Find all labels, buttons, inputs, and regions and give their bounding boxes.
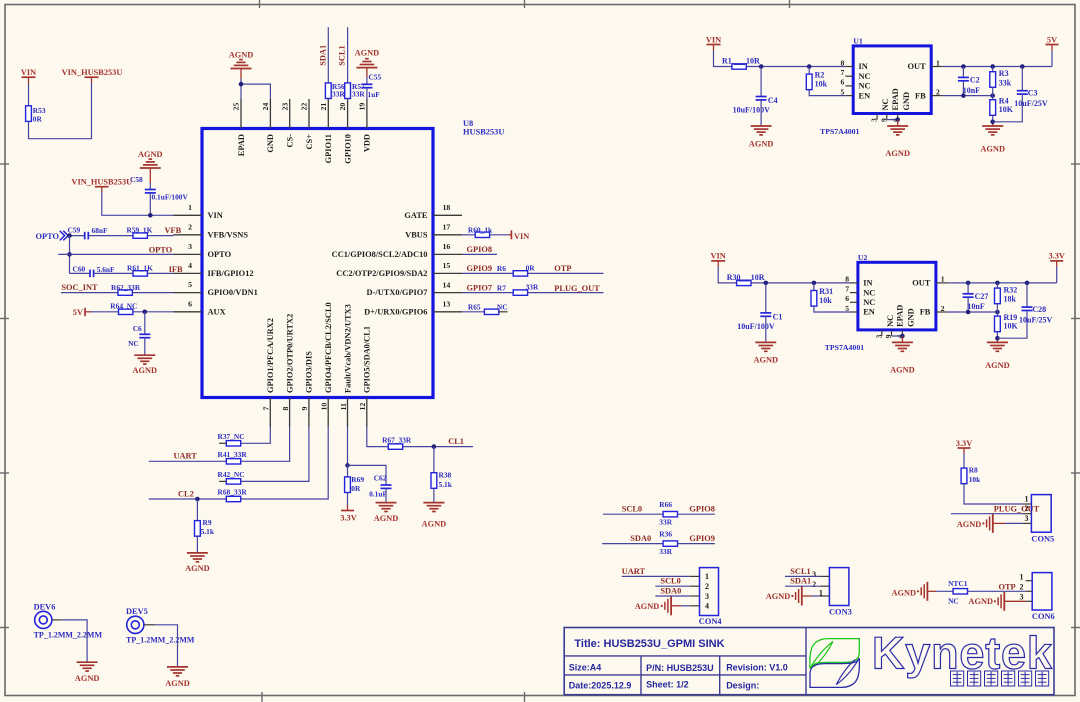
svg-text:R62_33R: R62_33R	[111, 283, 141, 292]
svg-text:SCL1: SCL1	[790, 567, 810, 576]
svg-text:33R: 33R	[352, 89, 365, 98]
svg-text:SDA0: SDA0	[630, 534, 651, 543]
svg-text:OUT: OUT	[912, 279, 931, 288]
logo chinese characters	[951, 671, 964, 686]
svg-text:0R: 0R	[526, 263, 536, 272]
ground AGND below C6	[134, 354, 155, 356]
U2 pin 5 EN stub	[850, 311, 858, 313]
svg-text:CON3: CON3	[829, 608, 852, 617]
wire to C4	[760, 67, 762, 97]
wire C62 to AGND	[385, 488, 387, 502]
svg-text:R65: R65	[468, 303, 481, 312]
svg-text:CL2: CL2	[178, 489, 194, 498]
U8 pin 20 GPIO10 stub	[347, 99, 349, 129]
U2 pin 2 FB stub	[936, 311, 948, 313]
svg-text:VFB/VSNS: VFB/VSNS	[208, 230, 249, 239]
svg-text:R6: R6	[497, 264, 506, 273]
svg-text:0.1uF: 0.1uF	[369, 489, 387, 498]
resistor R67	[388, 444, 402, 449]
svg-text:EPAD: EPAD	[237, 134, 246, 156]
resistor R8	[961, 468, 967, 484]
svg-text:GND: GND	[907, 308, 916, 327]
svg-text:AGND: AGND	[165, 679, 190, 688]
border zone tick right 1	[1071, 163, 1080, 165]
svg-text:VIN: VIN	[711, 252, 726, 261]
svg-text:R4: R4	[999, 97, 1009, 106]
svg-text:Date:2025.12.9: Date:2025.12.9	[569, 681, 632, 691]
U8 pin 6 AUX stub	[173, 311, 202, 313]
svg-text:0R: 0R	[33, 115, 43, 124]
svg-text:GPIO8: GPIO8	[689, 505, 715, 514]
svg-text:GPIO1/PFCA/URX2: GPIO1/PFCA/URX2	[266, 318, 275, 393]
wire R66 to GPIO8	[678, 513, 715, 515]
svg-text:D+/URX0/GPIO6: D+/URX0/GPIO6	[364, 307, 427, 316]
U1 pin 9 stub	[886, 114, 888, 120]
U1 pin 2 FB stub	[931, 95, 943, 97]
wire DEV5 to AGND	[144, 624, 155, 626]
junction OPTO/pin3	[67, 252, 72, 257]
resistor R37	[226, 441, 240, 446]
svg-text:GPIO9: GPIO9	[689, 534, 715, 543]
svg-text:R38: R38	[439, 471, 452, 480]
wire R53 to VIN_HUSB253U	[29, 83, 92, 139]
svg-text:10nF: 10nF	[963, 86, 980, 95]
wire R65 stub	[499, 311, 508, 313]
svg-text:1: 1	[936, 58, 940, 67]
junction EPAD node	[239, 82, 244, 87]
svg-text:C60: C60	[73, 265, 86, 274]
svg-text:5V: 5V	[1047, 35, 1057, 44]
svg-text:U1: U1	[853, 37, 863, 46]
wire GPIO8 from pin 16	[462, 253, 497, 255]
svg-text:C62: C62	[374, 473, 387, 482]
U8 pin 10 GPIO4/PFCB/CL2/SCL0 stub	[327, 398, 329, 428]
wire R57 to U8 pin 20	[347, 99, 349, 100]
CON5 pin 1 stub	[1022, 503, 1031, 505]
wire DEV6 to AGND	[52, 619, 63, 621]
svg-text:TP_1.2MM_2.2MM: TP_1.2MM_2.2MM	[126, 635, 195, 644]
wire R61 to U8 pin 4	[147, 272, 173, 274]
svg-text:2: 2	[705, 582, 709, 591]
CON4 pin 2 stub	[690, 585, 700, 587]
junction C28 tap	[1025, 281, 1030, 286]
svg-text:13: 13	[443, 300, 451, 309]
svg-text:3: 3	[1025, 514, 1029, 523]
resistor R68	[226, 496, 240, 501]
capacitor C55	[361, 83, 372, 85]
ground AGND below U2	[892, 341, 913, 343]
U8 pin 9 GPIO3/DIS stub	[308, 398, 310, 428]
svg-text:NC: NC	[948, 597, 959, 606]
wire 3.3V to R8	[963, 454, 965, 469]
wire R31 to EN	[814, 306, 850, 312]
svg-text:17: 17	[443, 223, 451, 232]
svg-text:R42_NC: R42_NC	[218, 470, 245, 479]
wire R2 to EN	[809, 90, 845, 96]
U1 pin 8 IN stub	[845, 66, 853, 68]
U8 pin 18 GATE stub	[433, 214, 462, 216]
svg-text:10: 10	[320, 403, 329, 411]
ground AGND below R9	[187, 552, 208, 554]
resistor R53	[26, 106, 32, 122]
svg-text:C3: C3	[1028, 89, 1038, 98]
svg-text:21: 21	[319, 103, 328, 111]
wire SDA1 to CON3 pin 2	[785, 585, 820, 587]
svg-text:19: 19	[358, 103, 367, 111]
svg-text:PLUG_OUT: PLUG_OUT	[554, 284, 600, 293]
svg-text:UART: UART	[622, 567, 646, 576]
svg-text:SCL0: SCL0	[660, 577, 680, 586]
wire R59 to U8 pin 2	[147, 235, 173, 237]
svg-text:1: 1	[941, 275, 945, 284]
svg-text:AGND: AGND	[890, 365, 915, 374]
svg-text:SDA0: SDA0	[660, 586, 681, 595]
svg-text:GPIO7: GPIO7	[467, 284, 493, 293]
wire AGND to C55	[366, 77, 368, 84]
svg-text:5: 5	[841, 87, 845, 96]
U1 pin 3 stub	[876, 114, 878, 120]
wire SDA0 to CON4 pin 3	[655, 595, 690, 597]
wire pin 13 to R65	[462, 311, 484, 313]
wire to C28	[1026, 283, 1028, 307]
svg-text:VIN_HUSB253U: VIN_HUSB253U	[71, 178, 132, 187]
resistor R3	[990, 72, 996, 88]
ground AGND below C1	[755, 341, 776, 343]
svg-text:Sheet: 1/2: Sheet: 1/2	[646, 680, 689, 690]
wire R68 to U8 pin 10	[241, 427, 329, 499]
svg-text:AGND: AGND	[355, 49, 380, 58]
svg-text:Size:A4: Size:A4	[569, 663, 602, 673]
svg-text:C4: C4	[768, 96, 778, 105]
svg-text:AGND: AGND	[185, 564, 210, 573]
svg-text:AGND: AGND	[75, 674, 100, 683]
U8 pin 19 VDD stub	[366, 99, 368, 129]
capacitor C6	[139, 333, 150, 335]
junction R3 tap	[990, 64, 995, 69]
junction C1 tap	[764, 281, 769, 286]
resistor R4	[990, 100, 996, 116]
resistor R65	[484, 309, 498, 314]
svg-text:10uF/25V: 10uF/25V	[1019, 315, 1053, 324]
wire SDA0 to R36	[602, 543, 663, 545]
U1 pin 1 OUT stub	[931, 66, 943, 68]
svg-text:VIN: VIN	[706, 35, 721, 44]
svg-text:EPAD: EPAD	[896, 305, 905, 327]
svg-text:NC: NC	[128, 339, 139, 348]
svg-text:6: 6	[188, 299, 192, 308]
U2 pin 4 GND stub	[901, 330, 903, 336]
svg-text:R36: R36	[659, 530, 672, 539]
U2 pin 9 stub	[891, 330, 893, 336]
wire 5V to R64	[91, 311, 119, 313]
wire to C1	[765, 283, 767, 313]
svg-text:2: 2	[941, 304, 945, 313]
svg-text:OTP: OTP	[554, 264, 571, 273]
resistor R60	[475, 232, 489, 237]
resistor R7	[513, 290, 527, 295]
wire SOC_INT to R62	[61, 292, 118, 294]
svg-text:VIN_HUSB253U: VIN_HUSB253U	[62, 68, 123, 77]
svg-text:NC: NC	[886, 315, 895, 327]
svg-text:R8: R8	[969, 466, 978, 475]
U8 pin 1 VIN stub	[173, 214, 202, 216]
svg-text:1: 1	[1025, 495, 1029, 504]
svg-text:R9: R9	[203, 518, 212, 527]
junction OPTO node	[67, 233, 72, 238]
wire VIN port to R30	[718, 267, 736, 283]
svg-text:AGND: AGND	[749, 139, 774, 148]
svg-text:AGND: AGND	[968, 597, 993, 606]
U2 pin 7 NC stub	[850, 292, 858, 294]
wire AUX to C6	[144, 312, 146, 335]
wire SDA1 down to R56	[327, 27, 329, 83]
svg-text:GPIO4/PFCB/CL2/SCL0: GPIO4/PFCB/CL2/SCL0	[324, 302, 333, 393]
svg-text:UART: UART	[174, 452, 198, 461]
wire VIN to R53	[28, 84, 30, 107]
svg-text:VDD: VDD	[363, 134, 372, 152]
svg-text:CS+: CS+	[305, 134, 314, 150]
svg-text:10uF/100V: 10uF/100V	[733, 106, 771, 115]
svg-text:GPIO2/OTP0/URTX2: GPIO2/OTP0/URTX2	[285, 314, 294, 393]
svg-text:1: 1	[705, 572, 709, 581]
wire to R31	[813, 283, 815, 291]
svg-text:OPTO: OPTO	[36, 232, 60, 241]
wire OPTO node vertical	[69, 236, 71, 274]
title block logo cell divider	[805, 628, 807, 695]
svg-text:AGND: AGND	[766, 592, 791, 601]
svg-text:GPIO5/SDA0/CL1: GPIO5/SDA0/CL1	[363, 326, 372, 393]
capacitor C59	[84, 232, 86, 240]
svg-text:AGND: AGND	[422, 520, 447, 529]
wire pin 14 to R7	[462, 292, 514, 294]
wire to C3	[1021, 67, 1023, 91]
wire NTC1 to CON6 pin 2	[968, 590, 1026, 592]
wire C6 to AGND	[144, 338, 146, 355]
svg-text:AGND: AGND	[229, 50, 254, 59]
junction C3 tap	[1020, 64, 1025, 69]
svg-text:R41_33R: R41_33R	[218, 450, 248, 459]
wire R1 to U1 IN	[746, 66, 845, 68]
regulator U1 TPS7A4001 body	[853, 46, 931, 114]
svg-text:GPIO11: GPIO11	[324, 134, 333, 163]
svg-text:R67_33R: R67_33R	[382, 436, 412, 445]
ground AGND below DEV6	[77, 661, 98, 663]
wire C60 to R61	[94, 272, 133, 274]
svg-text:22: 22	[300, 103, 309, 111]
U1 pin 7 NC stub	[845, 75, 853, 77]
svg-text:TP_1.2MM_2.2MM: TP_1.2MM_2.2MM	[34, 631, 103, 640]
svg-text:GND: GND	[902, 92, 911, 111]
resistor R1	[732, 64, 746, 69]
border zone tick bottom 2	[524, 692, 526, 702]
svg-text:C2: C2	[970, 76, 980, 85]
wire OPTO port to C59	[68, 235, 85, 237]
svg-text:8: 8	[845, 275, 849, 284]
svg-text:5: 5	[188, 280, 192, 289]
svg-text:AGND: AGND	[138, 150, 163, 159]
svg-text:10k: 10k	[819, 296, 832, 305]
junction R2 tap	[807, 64, 812, 69]
svg-text:IFB/GPIO12: IFB/GPIO12	[208, 269, 254, 278]
svg-text:AGND: AGND	[133, 366, 158, 375]
svg-text:Revision: V1.0: Revision: V1.0	[726, 663, 788, 673]
svg-text:CC2/OTP2/GPIO9/SDA2: CC2/OTP2/GPIO9/SDA2	[336, 269, 427, 278]
svg-text:C59: C59	[68, 225, 81, 234]
U2 pin 8 IN stub	[850, 282, 858, 284]
svg-text:SDA1: SDA1	[790, 577, 811, 586]
svg-text:C1: C1	[773, 312, 783, 321]
wire C55 to U8 pin 19	[366, 88, 368, 100]
svg-text:33k: 33k	[999, 78, 1012, 87]
wire SCL1 to CON3 pin 3	[785, 575, 820, 577]
svg-text:R69: R69	[351, 475, 364, 484]
svg-text:7: 7	[845, 284, 849, 293]
svg-text:AGND: AGND	[754, 356, 779, 365]
capacitor C58	[145, 189, 156, 191]
op-amp U8 HUSB253U body	[202, 129, 433, 398]
wire R38 to AGND	[433, 488, 435, 502]
border zone tick right 4	[1071, 627, 1080, 629]
wire C59 to R59	[88, 235, 133, 237]
svg-text:EPAD: EPAD	[891, 88, 900, 110]
border zone tick right 3	[1071, 472, 1080, 474]
svg-text:R60_1k: R60_1k	[468, 225, 493, 234]
wire C4 to AGND	[760, 100, 762, 126]
svg-text:U2: U2	[858, 253, 868, 262]
svg-text:DEV5: DEV5	[126, 607, 148, 616]
svg-text:2: 2	[812, 580, 816, 589]
svg-text:12: 12	[358, 403, 367, 411]
capacitor C27	[963, 293, 974, 295]
title block row divider 2	[564, 674, 806, 676]
connector CON5 body	[1031, 495, 1051, 533]
resistor R31	[811, 291, 817, 307]
svg-text:23: 23	[280, 103, 289, 111]
svg-text:33R: 33R	[659, 547, 672, 556]
logo leaf blue	[810, 658, 859, 687]
wire AGND to C58	[149, 183, 151, 190]
svg-text:R59_1K: R59_1K	[127, 225, 153, 234]
svg-text:16: 16	[443, 242, 451, 251]
border zone tick top 1	[259, 0, 261, 8]
svg-text:VBUS: VBUS	[405, 230, 428, 239]
wire AGND to EPAD/GND pins	[240, 79, 242, 99]
border zone tick top 2	[524, 0, 526, 8]
CON4 pin 3 stub	[690, 595, 700, 597]
svg-text:6: 6	[841, 78, 845, 87]
svg-text:33R: 33R	[659, 518, 672, 527]
svg-text:C28: C28	[1032, 305, 1046, 314]
svg-text:AUX: AUX	[208, 307, 226, 316]
CON3 pin 1 stub	[820, 595, 830, 597]
junction AUX/C6	[143, 310, 148, 315]
capacitor C62	[381, 484, 392, 486]
U2 pin 1 OUT stub	[936, 282, 948, 284]
regulator U2 TPS7A4001 body	[858, 262, 936, 330]
svg-text:HUSB253U: HUSB253U	[463, 128, 504, 137]
svg-text:SDA1: SDA1	[318, 45, 327, 66]
capacitor C3	[1017, 90, 1028, 92]
border zone tick left 2	[0, 318, 9, 320]
svg-text:AGND: AGND	[957, 520, 982, 529]
U2 pin 6 NC stub	[850, 301, 858, 303]
wire FB net	[943, 95, 993, 97]
wire to R2	[808, 67, 810, 75]
svg-text:R19: R19	[1004, 313, 1018, 322]
svg-text:R2: R2	[815, 71, 825, 80]
svg-text:20: 20	[338, 103, 347, 111]
CON4 pin 4 stub	[690, 605, 700, 607]
border zone tick bottom 1	[261, 692, 263, 702]
junction R31 tap	[812, 281, 817, 286]
wire to C27	[967, 283, 969, 294]
border zone tick left 3	[0, 472, 9, 474]
ground AGND below U1	[887, 125, 908, 127]
resistor R19	[995, 316, 1001, 332]
border zone tick right 2	[1071, 318, 1080, 320]
U8 pin 2 VFB/VSNS stub	[173, 234, 202, 236]
wire R30 to U2 IN	[751, 282, 850, 284]
ground AGND below DEV5	[167, 666, 188, 668]
svg-text:NC: NC	[497, 303, 508, 312]
svg-text:R37_NC: R37_NC	[218, 432, 245, 441]
U8 pin 4 IFB/GPIO12 stub	[173, 272, 202, 274]
svg-text:CS-: CS-	[286, 134, 295, 148]
resistor R61	[133, 271, 147, 276]
svg-text:CON4: CON4	[699, 617, 723, 626]
wire SCL0 to R66	[603, 513, 663, 515]
U8 pin 13 D+/URX0/GPIO6 stub	[433, 311, 462, 313]
svg-text:VFB: VFB	[165, 226, 182, 235]
svg-text:Fault/Vcab/VDN2/UTX3: Fault/Vcab/VDN2/UTX3	[343, 304, 352, 393]
svg-text:R3: R3	[999, 69, 1009, 78]
wire R56 to U8 pin 21	[327, 99, 329, 100]
ground AGND below C62	[376, 502, 397, 504]
ground AGND below R19	[987, 341, 1008, 343]
wire R9 to AGND	[196, 536, 198, 552]
wire R8 to CON5 pin 1	[964, 484, 1022, 504]
svg-text:10nF: 10nF	[967, 302, 984, 311]
ground AGND below C4	[751, 125, 772, 127]
svg-text:R1: R1	[722, 57, 732, 66]
svg-text:9: 9	[300, 407, 309, 411]
svg-text:18k: 18k	[1004, 295, 1017, 304]
svg-text:8: 8	[841, 58, 845, 67]
svg-text:R64_NC: R64_NC	[110, 302, 137, 311]
svg-text:CON5: CON5	[1031, 535, 1054, 544]
svg-text:AGND: AGND	[885, 149, 910, 158]
wire CL2 to R68	[149, 498, 227, 500]
svg-text:18: 18	[443, 203, 451, 212]
svg-text:24: 24	[261, 103, 270, 111]
svg-text:R31: R31	[819, 287, 833, 296]
svg-text:3.3V: 3.3V	[956, 439, 972, 448]
svg-text:AGND: AGND	[980, 145, 1005, 154]
resistor R56	[325, 83, 331, 99]
svg-text:GPIO8: GPIO8	[467, 245, 493, 254]
svg-text:EN: EN	[863, 308, 875, 317]
svg-text:AGND: AGND	[985, 361, 1010, 370]
wire R62 to U8 pin 5	[132, 292, 173, 294]
U8 pin 23 CS- stub	[289, 99, 291, 129]
svg-text:SOC_INT: SOC_INT	[61, 283, 98, 292]
wire R36 to GPIO9	[678, 543, 715, 545]
junction pin11 node	[345, 463, 350, 468]
wire C27 to FB net	[967, 297, 969, 312]
resistor R6	[513, 271, 527, 276]
svg-text:2: 2	[936, 87, 940, 96]
wire C3 to AGND net	[993, 94, 1023, 122]
